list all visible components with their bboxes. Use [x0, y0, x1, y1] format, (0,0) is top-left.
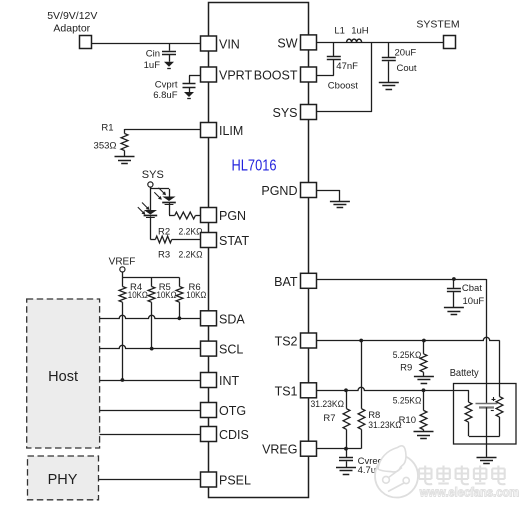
resistor R9	[420, 341, 427, 377]
svg-text:R1: R1	[101, 123, 113, 134]
svg-text:SYS: SYS	[272, 106, 297, 120]
svg-text:TS2: TS2	[275, 335, 298, 349]
svg-text:Cbat: Cbat	[462, 283, 482, 294]
junction R8 top	[359, 339, 363, 343]
resistor R2	[175, 212, 196, 219]
pin PGND	[261, 183, 316, 199]
svg-text:Host: Host	[48, 369, 78, 385]
pin STAT	[201, 233, 250, 249]
wire Host SDA	[100, 315, 202, 318]
block PHY	[28, 456, 99, 500]
label R5 10Kohm	[157, 282, 177, 301]
wire Host INT	[100, 380, 202, 382]
wire ILIM to R1	[125, 129, 202, 134]
ground Cvreg	[336, 468, 356, 475]
label R2 2.2Kohm	[158, 226, 203, 237]
svg-text:ILIM: ILIM	[219, 124, 243, 138]
net label SYSTEM	[416, 19, 459, 31]
svg-text:10KΩ: 10KΩ	[128, 290, 148, 301]
label Cbat 10uF	[462, 283, 484, 307]
junction R7 top	[344, 388, 348, 392]
svg-text:10uF: 10uF	[463, 296, 485, 307]
svg-text:SYS: SYS	[142, 169, 164, 181]
svg-text:CDIS: CDIS	[219, 428, 249, 442]
label R6 10Kohm	[186, 282, 206, 301]
svg-text:R2: R2	[158, 226, 170, 237]
wire R2 to PGN	[195, 215, 201, 217]
svg-text:PHY: PHY	[48, 472, 78, 488]
battery minus mark	[491, 410, 494, 412]
net label SYS	[142, 169, 164, 181]
pin CDIS	[201, 427, 249, 443]
svg-text:HL7016: HL7016	[232, 158, 277, 175]
wire BAT net	[317, 279, 487, 404]
junction Cbat tap	[452, 277, 456, 281]
resistor R6	[176, 287, 183, 303]
label L1 1uH	[334, 25, 368, 36]
wire PGND to ground	[317, 190, 340, 201]
label R9 5.25Kohm	[393, 350, 422, 373]
label Cvprt 6.8uF	[153, 79, 178, 101]
svg-text:Adaptor: Adaptor	[53, 22, 90, 34]
pin SDA	[201, 311, 246, 327]
svg-text:R7: R7	[323, 413, 335, 424]
wire SW to L1 to SYSTEM node	[317, 42, 444, 44]
label R8 31.23Kohm	[368, 410, 402, 431]
wire Host SCL	[100, 345, 202, 348]
label R10 5.25Kohm	[393, 396, 422, 427]
pin VIN	[201, 36, 240, 52]
junction R7 bottom	[344, 447, 348, 451]
label 20uF Cout	[395, 47, 417, 74]
wire Host CDIS	[100, 434, 202, 436]
svg-text:6.8uF: 6.8uF	[153, 90, 177, 101]
label Cin 1uF	[144, 48, 161, 71]
capacitor Cin	[162, 43, 176, 62]
wire Host OTG	[100, 410, 202, 412]
label Battety	[450, 367, 480, 379]
svg-text:10KΩ: 10KΩ	[157, 290, 177, 301]
svg-text:VREG: VREG	[262, 443, 297, 457]
resistor R5	[148, 287, 155, 303]
svg-text:VPRT: VPRT	[219, 69, 252, 83]
svg-text:1uH: 1uH	[351, 25, 369, 36]
svg-text:2.2KΩ: 2.2KΩ	[179, 250, 203, 261]
pin SYS	[272, 105, 316, 121]
svg-text:VREF: VREF	[109, 257, 136, 268]
pin PSEL	[201, 472, 252, 488]
block Battery	[454, 384, 517, 445]
connector adaptor	[80, 36, 92, 49]
IC body U1 HL7016	[209, 3, 309, 498]
label R3 2.2Kohm	[158, 250, 203, 261]
svg-text:PSEL: PSEL	[219, 474, 251, 488]
svg-text:Cvprt: Cvprt	[155, 79, 178, 90]
svg-text:SW: SW	[277, 36, 297, 50]
svg-text:OTG: OTG	[219, 404, 246, 418]
svg-text:L1: L1	[334, 25, 345, 36]
ground R1	[115, 157, 135, 164]
wire SYS pin drop from L1 output	[317, 42, 372, 111]
svg-text:BOOST: BOOST	[254, 69, 298, 83]
svg-text:31.23KΩ: 31.23KΩ	[368, 420, 402, 431]
svg-text:www.elecfans.com: www.elecfans.com	[419, 485, 519, 499]
svg-text:PGN: PGN	[219, 209, 246, 223]
wire battery cell to rail and ground	[486, 407, 488, 457]
ground R9	[414, 377, 434, 384]
svg-text:5.25KΩ: 5.25KΩ	[393, 350, 422, 361]
junction R10 top	[422, 388, 426, 392]
svg-text:PGND: PGND	[261, 184, 297, 198]
svg-text:BAT: BAT	[274, 275, 298, 289]
svg-text:VIN: VIN	[219, 38, 240, 52]
ground Cin arrow	[164, 62, 174, 69]
junction R6-SDA	[178, 316, 182, 320]
pin OTG	[201, 403, 247, 419]
svg-text:SCL: SCL	[219, 343, 243, 357]
resistor R7	[343, 390, 350, 448]
svg-text:Battety: Battety	[450, 367, 480, 379]
capacitor Cout	[382, 42, 396, 82]
connector SYSTEM	[444, 36, 456, 49]
pin SW	[277, 35, 316, 51]
svg-text:353Ω: 353Ω	[94, 141, 117, 152]
capacitor Cvreg	[339, 449, 353, 468]
ground Cvprt arrow	[184, 92, 194, 99]
resistor R4	[119, 287, 126, 303]
thermistor battery right	[496, 397, 503, 437]
svg-text:Cin: Cin	[146, 48, 160, 59]
resistor R10	[420, 390, 427, 432]
wire R5 to SCL line	[151, 302, 153, 348]
label R4 10Kohm	[128, 282, 148, 301]
pin PGN	[201, 208, 247, 224]
battery cell BT1	[476, 404, 498, 408]
junction R5-SCL	[150, 347, 154, 351]
svg-text:TS1: TS1	[275, 384, 298, 398]
wire R6 to SDA line	[179, 302, 181, 318]
battery plus mark	[492, 397, 496, 401]
ground battery	[477, 458, 497, 464]
LED D2	[144, 210, 158, 218]
block Host	[27, 299, 100, 448]
IC part number label HL7016	[232, 158, 277, 175]
ground R10	[414, 432, 434, 439]
label Cvreg 4.7uF	[358, 456, 383, 476]
wire SYS to LEDs	[150, 187, 169, 210]
net label VREF	[109, 257, 136, 268]
svg-text:Cboost: Cboost	[328, 81, 358, 92]
svg-text:1uF: 1uF	[144, 60, 161, 71]
ground Cbat	[444, 308, 464, 315]
resistor R1	[121, 134, 128, 157]
terminal SYS circle	[148, 182, 153, 187]
ground Cout	[379, 83, 399, 90]
label R1 353ohm	[94, 123, 117, 152]
svg-text:5V/9V/12V: 5V/9V/12V	[47, 10, 97, 22]
pin SCL	[201, 341, 244, 357]
svg-text:R10: R10	[399, 415, 416, 426]
terminal VREF circle	[120, 267, 125, 272]
wire battery bottom rail	[469, 436, 500, 438]
pin ILIM	[201, 123, 244, 139]
svg-text:SYSTEM: SYSTEM	[416, 19, 459, 31]
LED D1	[162, 197, 176, 205]
svg-text:INT: INT	[219, 374, 240, 388]
capacitor Cbat	[447, 279, 461, 307]
wire D2 to R3	[150, 217, 155, 240]
capacitor Cvprt	[183, 76, 196, 92]
wire VREF bus	[122, 272, 179, 287]
LED D2 arrows	[138, 203, 150, 215]
pin VPRT	[201, 67, 253, 83]
wire VREG net	[317, 448, 362, 450]
wire VPRT to Cvprt	[189, 75, 202, 77]
pin TS1	[275, 383, 317, 399]
LED D1 arrows	[154, 188, 166, 200]
svg-text:Cout: Cout	[397, 63, 417, 74]
resistor R3	[155, 236, 171, 243]
watermark elecfans logo and text	[375, 446, 519, 499]
svg-text:20uF: 20uF	[395, 47, 417, 58]
pin TS2	[275, 333, 317, 349]
label 47nF Cboost	[328, 61, 358, 92]
resistor R8	[358, 341, 365, 449]
svg-text:STAT: STAT	[219, 234, 249, 248]
adaptor label	[47, 10, 97, 34]
svg-text:2.2KΩ: 2.2KΩ	[179, 226, 203, 237]
pin INT	[201, 373, 240, 389]
wire R3 to STAT	[172, 239, 202, 241]
pin BOOST	[254, 67, 317, 83]
svg-text:R9: R9	[400, 363, 412, 374]
wire R4 to INT line	[122, 302, 124, 380]
svg-text:10KΩ: 10KΩ	[186, 290, 206, 301]
wire adaptor to VIN	[91, 43, 201, 45]
pin VREG	[262, 441, 316, 457]
wire D1 to R2	[169, 203, 175, 216]
label R7 31.23Kohm	[311, 399, 345, 424]
pin BAT	[274, 273, 316, 289]
svg-text:SDA: SDA	[219, 312, 245, 326]
capacitor Cboost	[327, 42, 341, 59]
svg-text:5.25KΩ: 5.25KΩ	[393, 396, 422, 407]
ground PGND	[330, 202, 350, 208]
junction R9 top	[422, 339, 426, 343]
thermistor battery left	[465, 402, 472, 436]
svg-text:31.23KΩ: 31.23KΩ	[311, 399, 345, 410]
svg-text:R3: R3	[158, 250, 170, 261]
wire TS2 net	[317, 337, 500, 396]
wire TS1 net	[317, 387, 469, 402]
wire BOOST to Cboost	[317, 60, 334, 76]
inductor L1	[347, 39, 362, 42]
svg-text:47nF: 47nF	[336, 61, 358, 72]
junction R4-INT	[121, 378, 125, 382]
wire PHY PSEL	[99, 479, 202, 481]
